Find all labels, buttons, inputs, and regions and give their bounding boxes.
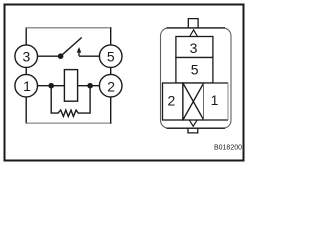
pin 2 cavity bbox=[163, 83, 183, 120]
connector index triangle bottom bbox=[190, 120, 197, 126]
terminal 3 bbox=[15, 45, 38, 68]
wire bottom rail drop from terminal 2 bbox=[110, 97, 112, 124]
wire terminal3-terminal1 link bbox=[25, 67, 27, 74]
svg-text:2: 2 bbox=[168, 92, 176, 108]
connector top tab bbox=[188, 19, 198, 28]
wire terminal 1 to coil bbox=[38, 85, 65, 87]
terminal 2 bbox=[99, 74, 122, 97]
junction dot right bbox=[87, 83, 93, 89]
wire top rail riser to terminal 5 bbox=[110, 27, 112, 45]
terminal 1 bbox=[15, 74, 38, 97]
connector body outline bottom edge bbox=[167, 127, 226, 129]
svg-text:1: 1 bbox=[23, 78, 31, 94]
wire switch feed from terminal 3 bbox=[38, 55, 61, 57]
pin 1 cavity bbox=[204, 83, 228, 120]
pin 3 cavity bbox=[176, 37, 213, 58]
svg-text:3: 3 bbox=[23, 49, 31, 65]
wire bottom rail drop from terminal 1 bbox=[25, 97, 27, 124]
pin 5 cavity bbox=[176, 58, 213, 84]
svg-text:3: 3 bbox=[190, 40, 198, 56]
svg-text:1: 1 bbox=[211, 92, 219, 108]
wire top rail riser from terminal 3 bbox=[25, 27, 27, 45]
switch actuation arrow bbox=[77, 47, 82, 56]
keying cavity with X bbox=[183, 83, 204, 120]
switch contact junction dot bbox=[58, 53, 64, 59]
svg-text:5: 5 bbox=[107, 49, 115, 65]
wire top rail horizontal bbox=[26, 27, 112, 29]
wire coil to terminal 2 bbox=[78, 85, 100, 87]
connector bottom tab bbox=[188, 128, 198, 133]
connector body outline bbox=[161, 28, 232, 128]
terminal 5 bbox=[99, 45, 122, 68]
wire terminal5-terminal2 link bbox=[110, 67, 112, 74]
connector body outline top edge bbox=[167, 27, 226, 29]
wire bottom rail horizontal bbox=[26, 122, 112, 124]
junction dot left bbox=[48, 83, 54, 89]
connector index triangle top bbox=[189, 30, 197, 37]
svg-text:2: 2 bbox=[107, 78, 115, 94]
resistor (parallel branch) bbox=[51, 87, 90, 116]
svg-text:B018200: B018200 bbox=[214, 145, 242, 152]
switch blade (open contact arm) bbox=[61, 38, 82, 57]
svg-text:5: 5 bbox=[191, 62, 199, 78]
relay coil bbox=[64, 70, 77, 102]
wire switch to terminal 5 bbox=[79, 55, 99, 57]
